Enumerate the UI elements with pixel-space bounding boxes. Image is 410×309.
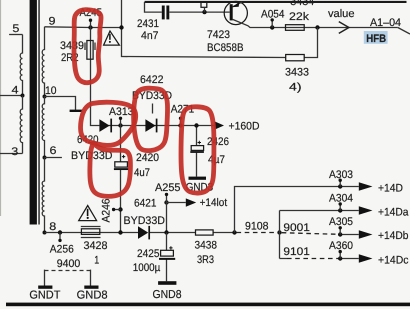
warning triangle near A245 bbox=[104, 31, 120, 45]
diode row wire bbox=[99, 125, 214, 127]
svg-text:value: value bbox=[328, 8, 355, 20]
tick above diode 6422 bbox=[152, 104, 154, 114]
transformer secondary winding 6-8 bbox=[42, 158, 44, 233]
wire +14Dc row bbox=[280, 258, 359, 260]
wire +14lot bbox=[167, 202, 186, 204]
svg-text:9: 9 bbox=[49, 16, 56, 28]
node base junction bbox=[202, 10, 206, 14]
wire cap to base bbox=[169, 11, 229, 13]
transformer secondary winding 9-10 bbox=[42, 27, 44, 97]
svg-text:A255: A255 bbox=[155, 182, 181, 194]
svg-text:7423: 7423 bbox=[207, 29, 230, 41]
svg-text:GND8: GND8 bbox=[77, 290, 108, 302]
diode D6420 bbox=[99, 119, 109, 132]
transformer primary winding 5-4 bbox=[20, 35, 22, 96]
connector square bbox=[201, 2, 207, 8]
node junction 234 bbox=[232, 230, 236, 234]
svg-text:GNDT: GNDT bbox=[29, 290, 60, 302]
svg-text:9108: 9108 bbox=[245, 220, 269, 232]
svg-text:2431: 2431 bbox=[137, 18, 159, 30]
svg-text:10: 10 bbox=[45, 85, 57, 97]
wire +14Da row bbox=[280, 210, 359, 212]
resistor R3428 bbox=[81, 229, 99, 235]
wire vertical from top edge down through corner bbox=[122, 0, 287, 58]
wire up to +14D row bbox=[235, 187, 359, 233]
svg-text:6422: 6422 bbox=[140, 74, 164, 86]
node junction bottom x121 bbox=[118, 230, 122, 234]
svg-text:+160D: +160D bbox=[229, 121, 260, 133]
capacitor C2425 leads bbox=[166, 233, 168, 282]
node A246 bbox=[118, 207, 122, 211]
svg-text:GND8: GND8 bbox=[153, 289, 182, 301]
ground GNDT bar bbox=[38, 286, 52, 289]
arrow +14lot bbox=[186, 198, 196, 206]
wire pin 4 bbox=[0, 95, 23, 97]
wire pin 10 to core tick bbox=[45, 97, 76, 111]
emitter with arrow bbox=[233, 2, 242, 7]
wire pin 3 bbox=[0, 153, 23, 155]
node pin 10 bbox=[43, 95, 47, 99]
svg-text:A246: A246 bbox=[101, 199, 113, 223]
red annotation loop 1 (A245/3439) bbox=[74, 10, 101, 83]
core tick bar bbox=[70, 110, 83, 112]
resistor R3439 lead bbox=[91, 28, 100, 126]
arrow +14D bbox=[359, 182, 373, 190]
svg-text:3: 3 bbox=[11, 146, 18, 158]
svg-text:3438: 3438 bbox=[195, 240, 218, 252]
svg-text:5: 5 bbox=[12, 23, 19, 35]
wire A255 down to bottom row bbox=[166, 203, 168, 234]
capacitor C2426 leads bbox=[196, 126, 198, 177]
svg-text:BYD33D: BYD33D bbox=[124, 215, 166, 227]
capacitor C2431 bbox=[162, 6, 165, 20]
value chevron bbox=[339, 22, 349, 34]
link 9108 dashed bbox=[237, 232, 278, 234]
svg-text:A054: A054 bbox=[261, 9, 285, 21]
node A304 bbox=[338, 208, 342, 212]
svg-text:6: 6 bbox=[50, 145, 57, 157]
transformer secondary winding 10-6 bbox=[42, 97, 44, 158]
svg-text:+14Db: +14Db bbox=[378, 230, 409, 242]
svg-text:6421: 6421 bbox=[134, 198, 157, 210]
wire pin 6 stub bbox=[45, 157, 62, 159]
arrow +14Da bbox=[359, 206, 373, 214]
wire pin 9 to A245 to corner bbox=[45, 26, 122, 29]
capacitor C2426 bbox=[191, 146, 203, 151]
transformer core bbox=[30, 0, 37, 225]
wire pin 5 stub bbox=[9, 34, 22, 36]
ground GND3 bar bbox=[189, 177, 207, 180]
arrow +14Dc bbox=[359, 254, 373, 262]
svg-text:+14D: +14D bbox=[378, 183, 403, 195]
node junction 317 bbox=[315, 25, 319, 29]
svg-text:A256: A256 bbox=[50, 244, 74, 256]
node pin 8 bbox=[43, 231, 47, 235]
resistor R3439 bbox=[87, 41, 93, 60]
diode D6421 bbox=[138, 226, 148, 239]
svg-text:+14lot: +14lot bbox=[200, 197, 228, 209]
svg-text:4µ7: 4µ7 bbox=[208, 154, 225, 166]
arrow +160D bbox=[214, 121, 224, 129]
svg-text:A303: A303 bbox=[329, 169, 353, 181]
bottom border bbox=[6, 303, 410, 307]
top rail (emitter supply, cropped) bbox=[145, 1, 407, 3]
svg-text:22k: 22k bbox=[289, 11, 310, 23]
svg-text:1000µ: 1000µ bbox=[133, 262, 161, 274]
node A256 bbox=[58, 230, 62, 234]
node junction 167 bottom bbox=[164, 230, 168, 234]
svg-text:2425: 2425 bbox=[137, 248, 160, 260]
node junction x121 bbox=[119, 25, 123, 29]
collector bbox=[233, 19, 398, 27]
node A054 junction bbox=[270, 25, 274, 29]
svg-text:A305: A305 bbox=[329, 216, 353, 228]
red annotation loop 2 (6420/A313) bbox=[81, 102, 136, 145]
red annotation loop 3 (6422) bbox=[134, 88, 168, 150]
node A360 bbox=[338, 256, 342, 260]
svg-text:A1–04: A1–04 bbox=[370, 17, 401, 29]
svg-text:+14Dc: +14Dc bbox=[378, 254, 409, 266]
svg-text:9400: 9400 bbox=[57, 258, 81, 270]
link 9101 dashed bbox=[287, 258, 338, 260]
resistor R3438 bbox=[196, 230, 214, 235]
svg-text:3433: 3433 bbox=[285, 67, 309, 79]
resistor R3433 bbox=[286, 55, 305, 61]
svg-text:3428: 3428 bbox=[84, 240, 108, 252]
wire cap loop left bbox=[145, 2, 162, 12]
ground GND8 bar (9400) bbox=[84, 286, 98, 289]
svg-text:4: 4 bbox=[12, 85, 19, 97]
node junction 278.5 bbox=[277, 230, 281, 234]
node A271 junction bbox=[178, 123, 182, 127]
wire +14Db solid end bbox=[338, 234, 359, 236]
capacitor C2420 leads bbox=[120, 126, 122, 233]
node A303 bbox=[338, 184, 342, 188]
svg-text:1: 1 bbox=[94, 254, 99, 266]
link 9400 dashed bbox=[45, 270, 91, 286]
svg-text:2426: 2426 bbox=[207, 136, 229, 148]
capacitor C2420 bbox=[115, 162, 128, 167]
node A305 bbox=[338, 232, 342, 236]
HFB highlight bbox=[364, 31, 388, 44]
node A245 marker bbox=[90, 20, 92, 27]
link 9001 dashed bbox=[282, 233, 338, 235]
capacitor C2425 bbox=[161, 250, 174, 256]
transistor Q7423 bbox=[224, 1, 247, 24]
node pin 4 bbox=[21, 94, 25, 98]
svg-text:4): 4) bbox=[289, 82, 302, 94]
red annotation loop 5 (2426) bbox=[181, 107, 214, 193]
svg-text:3R3: 3R3 bbox=[197, 254, 214, 266]
wire 3433 branch bbox=[304, 28, 317, 58]
node A255 bbox=[164, 200, 168, 204]
scan edge line bbox=[0, 0, 1, 216]
svg-text:8: 8 bbox=[49, 221, 56, 233]
node A313 junction bbox=[118, 123, 122, 127]
svg-text:A304: A304 bbox=[329, 193, 353, 205]
branch vertical bbox=[279, 211, 281, 259]
wire to A1-04 bbox=[398, 28, 410, 35]
warning triangle near A256 bbox=[79, 206, 97, 221]
transformer primary winding 4-3 bbox=[20, 96, 22, 154]
svg-text:2420: 2420 bbox=[136, 152, 159, 164]
diode D6422 bbox=[145, 119, 155, 132]
red annotation loop 4 (2420) bbox=[90, 143, 131, 196]
svg-text:+14Da: +14Da bbox=[378, 206, 409, 218]
svg-text:9101: 9101 bbox=[283, 246, 310, 258]
bottom row wire bbox=[45, 232, 235, 234]
arrow +14Db bbox=[359, 230, 373, 238]
svg-text:BC858B: BC858B bbox=[207, 42, 244, 54]
svg-text:3434: 3434 bbox=[290, 0, 314, 8]
resistor R3434 22k bbox=[286, 25, 305, 31]
node A245 junction bbox=[88, 25, 92, 29]
node pin 6 bbox=[43, 156, 47, 160]
svg-text:4u7: 4u7 bbox=[134, 167, 150, 179]
svg-text:4n7: 4n7 bbox=[141, 30, 159, 42]
svg-text:9001: 9001 bbox=[283, 222, 310, 234]
node 2426 junction bbox=[194, 123, 198, 127]
ground GND8 bar (2425) bbox=[158, 281, 176, 285]
svg-text:A360: A360 bbox=[329, 240, 353, 252]
svg-text:HFB: HFB bbox=[366, 33, 386, 45]
